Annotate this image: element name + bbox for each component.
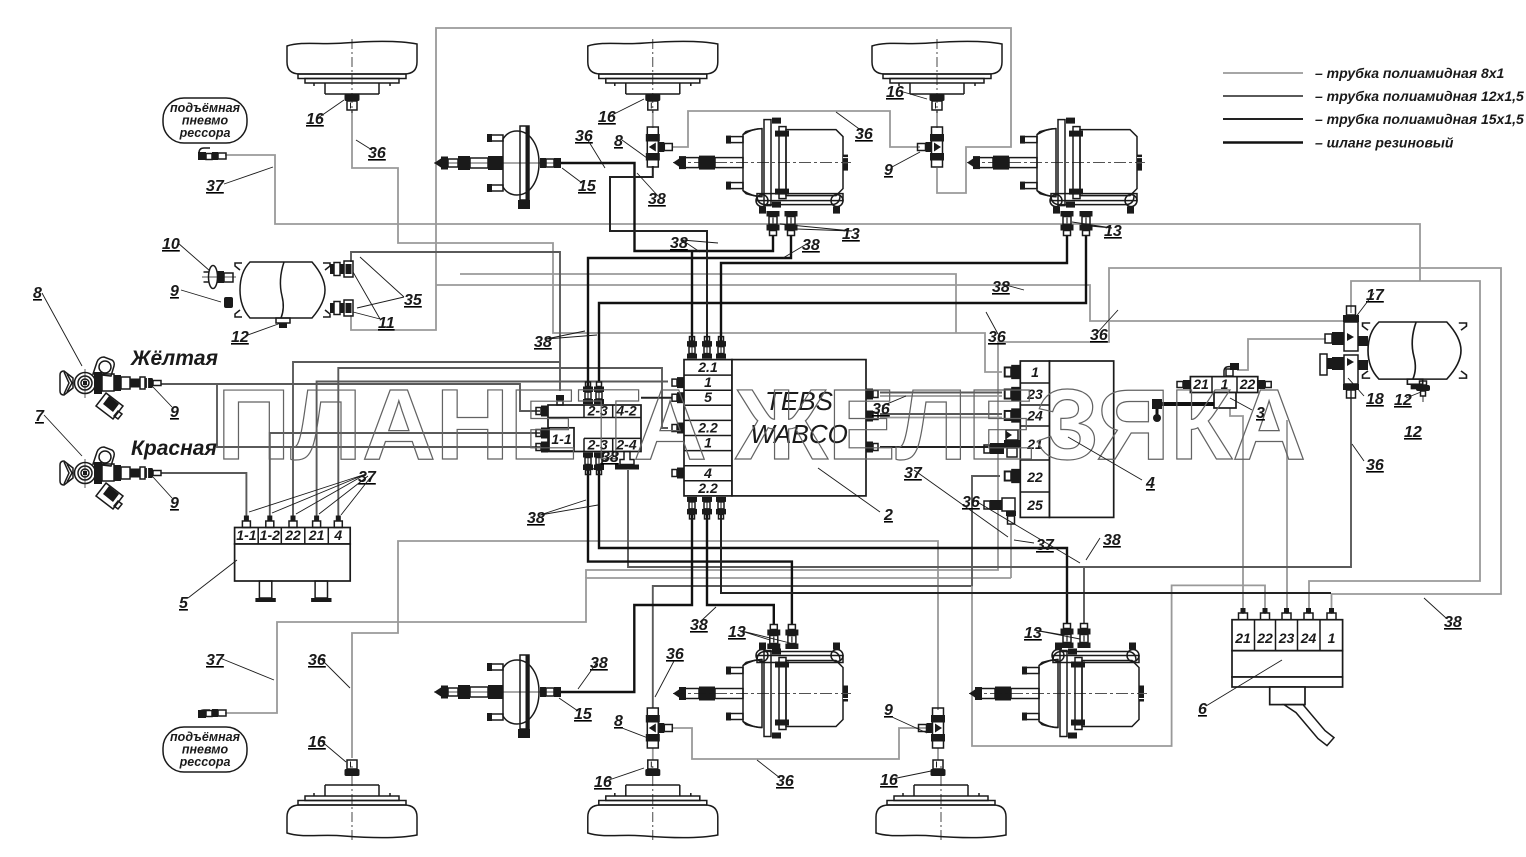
- svg-text:рессора: рессора: [179, 755, 231, 769]
- wire: TEBS supply to T-fitting 17 reservoir: [436, 285, 1351, 321]
- svg-text:10: 10: [162, 236, 180, 253]
- wire: port 25 stub: [1010, 524, 1012, 578]
- wire: TEBS right to unit 4 port 24 pair: [880, 413, 1002, 415]
- svg-text:7: 7: [35, 408, 45, 425]
- wire: yellow coupling line to valve port: [161, 384, 540, 411]
- svg-text:6: 6: [1198, 701, 1207, 718]
- wire: tube 36 wheel bottom-left to T-fitting 9 bottom: [352, 541, 938, 758]
- wire: valve top A to 13R fitting of middle top chamber: [588, 236, 791, 391]
- wire: valve to TEBS port 5 short link: [641, 397, 672, 399]
- wire: drain unit port 1 gray loop: [586, 268, 1501, 614]
- wire: T8 bottom side to T9 bottom side: [673, 728, 932, 759]
- fitting 16 wheel top-right: [930, 94, 945, 110]
- svg-text:9: 9: [884, 702, 893, 719]
- 13 fittings top-right chamber: [1061, 211, 1074, 236]
- svg-text:Жёлтая: Жёлтая: [130, 347, 218, 370]
- svg-text:1-1: 1-1: [236, 527, 256, 543]
- svg-text:35: 35: [404, 292, 423, 309]
- svg-text:36: 36: [308, 652, 326, 669]
- svg-text:38: 38: [534, 334, 552, 351]
- svg-text:36: 36: [776, 773, 794, 790]
- svg-text:– трубка полиамидная 8х1: – трубка полиамидная 8х1: [1315, 65, 1505, 81]
- release valve block (1-1 / 2-3 / 2-4): [536, 382, 641, 475]
- svg-text:– трубка полиамидная 15х1,5: – трубка полиамидная 15х1,5: [1315, 111, 1524, 127]
- svg-text:21: 21: [1234, 630, 1251, 646]
- wire: wheel bottom-middle fitting to T8: [652, 748, 654, 760]
- svg-text:2: 2: [883, 507, 893, 524]
- wire: wheel 2 fitting to T8: [652, 110, 654, 128]
- T-fitting 8 top: [646, 127, 673, 167]
- svg-text:36: 36: [855, 126, 873, 143]
- wheel top-right: [872, 39, 1002, 113]
- svg-text:11: 11: [378, 315, 395, 332]
- svg-text:38: 38: [601, 449, 619, 466]
- svg-text:16: 16: [594, 774, 612, 791]
- T-fitting 17: [1325, 306, 1359, 351]
- coupling head yellow: [60, 357, 161, 419]
- brake chamber 15 top: [434, 126, 561, 209]
- svg-text:2.2: 2.2: [697, 480, 718, 496]
- svg-text:23: 23: [1278, 630, 1295, 646]
- wire: TEBS to 13L fitting bottom middle chamber: [707, 515, 774, 625]
- wheel bottom-right: [876, 766, 1006, 840]
- wire: TEBS 5 to 13L top-right chamber: [721, 236, 1067, 341]
- test connection block 5: [235, 527, 351, 602]
- svg-text:17: 17: [1366, 287, 1385, 304]
- fitting 10 on reservoir: [202, 266, 236, 289]
- brake chamber 15 bottom: [434, 655, 561, 738]
- wire: 15x1.5 spur west along y567 to valve drain: [628, 470, 1084, 567]
- spring brake chamber bottom-middle: [673, 643, 851, 739]
- svg-text:36: 36: [575, 128, 593, 145]
- wire: hose chamber 15 top to 13L fitting of middle chamber: [560, 163, 773, 251]
- bubble bottom fitting: [198, 709, 226, 718]
- wire: T8 top bottom hose to TEBS top: [610, 166, 707, 341]
- svg-text:13: 13: [842, 226, 860, 243]
- wire: TEBS 1 to 13R fitting top right chamber: [599, 236, 1086, 381]
- svg-text:36: 36: [666, 646, 684, 663]
- svg-text:13: 13: [1104, 223, 1122, 240]
- wire: tube 36 from reservoir elbow 11 around top to T-fitting 9: [351, 28, 1011, 330]
- fitting 16 wheel bottom-left: [345, 760, 360, 776]
- wire: tube 37 upper lifting air spring: [225, 155, 1420, 281]
- air reservoir right: [1363, 322, 1467, 389]
- drain unit 6: [1232, 608, 1343, 746]
- wire: T8 bottom riser to unit 4 port 22: [653, 476, 1000, 708]
- svg-text:38: 38: [992, 279, 1010, 296]
- wire: gray loop around bottom-right chamber to drain port 22: [972, 585, 1265, 746]
- wheel bottom-left: [287, 766, 417, 840]
- 13 fittings bottom-middle chamber: [767, 625, 780, 650]
- svg-text:1-2: 1-2: [260, 527, 280, 543]
- valve 3: [1152, 363, 1271, 422]
- wire: drain unit port 23 riser: [1286, 420, 1288, 614]
- air reservoir left: [235, 262, 330, 328]
- svg-text:25: 25: [1026, 497, 1043, 513]
- svg-text:8: 8: [33, 285, 42, 302]
- wheel top-left: [287, 39, 417, 113]
- wire: TEBS 2.2 to chamber 15 bottom: [561, 515, 692, 692]
- svg-text:8: 8: [614, 133, 623, 150]
- svg-text:ПЛАНЕТА ЖЕЛЕЗЯКА: ПЛАНЕТА ЖЕЛЕЗЯКА: [217, 369, 1306, 481]
- wire: T18 reservoir to bottom-right chamber 13R: [1084, 384, 1351, 623]
- svg-text:37: 37: [1036, 537, 1055, 554]
- spring brake chamber top-right: [967, 118, 1145, 214]
- svg-text:5: 5: [179, 595, 189, 612]
- svg-text:4: 4: [1145, 475, 1155, 492]
- wire: test port 22 to valve riser: [293, 362, 560, 516]
- drain fitting 12 right reservoir: [1416, 381, 1430, 402]
- svg-text:– трубка полиамидная 12х1,5: – трубка полиамидная 12х1,5: [1315, 88, 1524, 104]
- wire: wheel 3 fitting to T9: [936, 110, 938, 128]
- svg-text:9: 9: [170, 283, 179, 300]
- wire: valve bottom A to 13R bottom middle chamber: [588, 469, 792, 625]
- svg-text:16: 16: [306, 111, 324, 128]
- unit 4 block: [984, 361, 1114, 524]
- port 25 T-fitting: [984, 498, 1016, 524]
- T-fitting 9 top: [918, 127, 945, 167]
- wheel top-middle: [588, 39, 718, 113]
- wire: test port 4 to TEBS left nub: [338, 368, 668, 516]
- wire: test port 21 to TEBS left nub: [317, 382, 668, 517]
- wire: drain unit port 24 loop: [1309, 281, 1480, 614]
- T-fitting 9 bottom: [919, 708, 946, 748]
- wire: tube 36 between T-fitting 8 and T-fitting 9 top row: [673, 111, 920, 147]
- wire: TEBS 2.1 to 13L fitting top right chamber: [691, 251, 693, 341]
- svg-text:18: 18: [1366, 391, 1384, 408]
- nipples: [1239, 608, 1337, 620]
- test block top fittings: [242, 516, 342, 528]
- svg-text:24: 24: [1300, 630, 1317, 646]
- hose 3 (rubber): [1158, 402, 1214, 406]
- svg-text:1: 1: [1328, 630, 1336, 646]
- spring brake chamber bottom-right: [969, 643, 1147, 739]
- wire: wheel bottom-right fitting to T9: [937, 748, 939, 760]
- port 21 valve assembly: [984, 430, 1020, 457]
- svg-text:8: 8: [614, 713, 623, 730]
- svg-text:16: 16: [886, 84, 904, 101]
- svg-text:38: 38: [648, 191, 666, 208]
- wire: tube 35 reservoir elbow to valve: [351, 252, 560, 391]
- svg-text:36: 36: [1090, 327, 1108, 344]
- lifting air spring bubble top: [163, 98, 247, 143]
- svg-text:37: 37: [206, 652, 225, 669]
- wire: tube 37 lower lifting air spring to port 25: [225, 578, 1011, 713]
- wire: yellow branch to valve port 1-1: [217, 384, 540, 447]
- svg-text:36: 36: [368, 145, 386, 162]
- wire: tube 36 wheel 1 to unit 4 port 1: [352, 110, 1002, 372]
- svg-text:37: 37: [206, 178, 225, 195]
- svg-text:36: 36: [962, 494, 980, 511]
- wire: drain unit port 21 riser: [1230, 408, 1243, 614]
- bubble top fitting: [198, 148, 226, 160]
- svg-text:38: 38: [527, 510, 545, 527]
- svg-text:38: 38: [1103, 532, 1121, 549]
- wheel bottom-middle: [588, 766, 718, 840]
- fitting 16 wheel bottom-middle: [645, 760, 660, 776]
- svg-text:38: 38: [670, 235, 688, 252]
- svg-text:4: 4: [333, 527, 342, 543]
- svg-text:38: 38: [690, 617, 708, 634]
- svg-text:16: 16: [598, 109, 616, 126]
- svg-text:13: 13: [1024, 625, 1042, 642]
- svg-text:3: 3: [1256, 405, 1265, 422]
- wire: valve 3 elbow to T-fitting 17: [1237, 339, 1326, 370]
- coupling head red: [60, 447, 161, 509]
- wire: test port 1-2 to valve: [270, 433, 540, 516]
- legend: [1223, 65, 1524, 151]
- wire: red coupling line to test port 1-1: [161, 473, 246, 516]
- fitting 16 wheel top-left: [345, 94, 360, 110]
- wire: TEBS right to unit 4 port 23 pair: [880, 392, 1002, 394]
- svg-text:15: 15: [578, 178, 597, 195]
- svg-text:– шланг резиновый: – шланг резиновый: [1315, 135, 1454, 151]
- T-fitting 8 bottom: [646, 708, 673, 748]
- svg-text:12: 12: [231, 329, 249, 346]
- svg-text:21: 21: [308, 527, 325, 543]
- svg-text:37: 37: [358, 469, 377, 486]
- svg-text:37: 37: [904, 465, 923, 482]
- svg-text:рессора: рессора: [179, 126, 231, 140]
- svg-text:12: 12: [1404, 424, 1422, 441]
- svg-text:Красная: Красная: [131, 437, 217, 460]
- svg-text:38: 38: [590, 655, 608, 672]
- wire: unit 4 port 21 feed: [880, 446, 988, 448]
- 13 fittings top-middle chamber: [767, 211, 780, 236]
- fitting 9 on reservoir: [224, 297, 233, 308]
- svg-text:15: 15: [574, 706, 593, 723]
- wire: TEBS 2.2c toward drain port 1: [721, 515, 1331, 593]
- TEBS WABCO unit 2: [672, 337, 878, 519]
- elbow fittings 11 right of reservoir: [330, 261, 353, 277]
- svg-text:36: 36: [1366, 457, 1384, 474]
- fitting 16 wheel top-middle: [645, 94, 660, 110]
- T-fitting 18: [1320, 336, 1368, 398]
- svg-text:38: 38: [1444, 614, 1462, 631]
- svg-text:22: 22: [284, 527, 301, 543]
- svg-text:12: 12: [1394, 392, 1412, 409]
- svg-text:22: 22: [1256, 630, 1273, 646]
- fitting 16 wheel bottom-right: [931, 760, 946, 776]
- svg-text:13: 13: [728, 624, 746, 641]
- svg-text:9: 9: [884, 162, 893, 179]
- spring brake chamber top-middle: [673, 118, 851, 214]
- wire: valve bottom B to 13L bottom right chamber: [599, 469, 1067, 623]
- wire: gray mid line upper: [460, 274, 956, 333]
- 13 fittings bottom-right chamber: [1061, 624, 1074, 649]
- watermark: [217, 369, 1306, 481]
- lifting air spring bubble bottom: [163, 727, 247, 772]
- svg-text:16: 16: [880, 772, 898, 789]
